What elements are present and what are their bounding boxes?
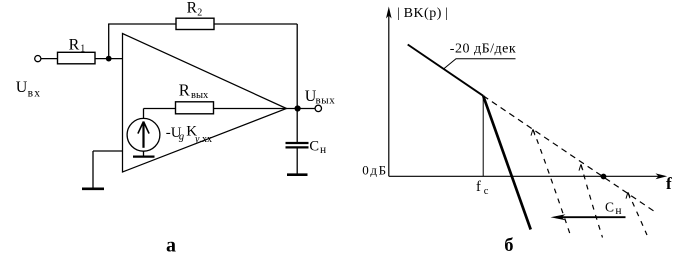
label U_вых [305, 88, 336, 107]
arrowhead pole curve 1 [531, 129, 535, 135]
curve: -20 dB/dec segment [408, 45, 484, 96]
svg-text:у.хх: у.хх [194, 134, 212, 145]
wire: input terminal to R1 [41, 58, 58, 60]
leader line for -20 дБ/дек [444, 59, 516, 69]
svg-text:R: R [69, 36, 80, 53]
C_н arrow [551, 214, 626, 220]
wire: dependent source top stub [143, 109, 145, 119]
dashed pole curve 1 [533, 130, 571, 236]
controlled source -U_д K_у.хх [127, 118, 160, 151]
resistor Rвых [176, 81, 214, 114]
ground (non-inverting input) [82, 188, 104, 191]
x-axis f [389, 173, 667, 179]
wire: R1 to op-amp inverting input [95, 58, 123, 60]
svg-text:f: f [666, 174, 672, 193]
f_c drop line [482, 96, 484, 177]
output node dot [295, 105, 301, 111]
svg-text:C: C [309, 139, 319, 155]
svg-text:0дБ: 0дБ [362, 163, 387, 178]
svg-text:R: R [179, 81, 190, 100]
svg-text:-20 дБ/дек: -20 дБ/дек [450, 42, 516, 57]
svg-text:U: U [16, 79, 28, 96]
y-axis |BK(p)| [386, 7, 392, 177]
curve: steep bold segment after f_c [483, 96, 531, 230]
op-amp U1 triangle [123, 34, 287, 173]
wire: R2 to output vertical [214, 23, 297, 25]
label f_c [476, 179, 489, 197]
dashed pole curve 3 [628, 193, 647, 236]
svg-text:н: н [615, 205, 621, 217]
node A junction dot [106, 56, 112, 62]
label C_н [605, 199, 622, 216]
wire: feedback vertical from node A up [108, 24, 110, 59]
svg-text:1: 1 [80, 44, 85, 55]
resistor R2 [176, 0, 214, 30]
capacitor C_н [286, 139, 327, 156]
svg-text:вых: вых [191, 90, 209, 101]
svg-text:б: б [504, 236, 513, 255]
wire: Rвых to op-amp output apex [214, 108, 287, 110]
value label -Uд Kу.хх [166, 124, 212, 146]
input terminal (U_вх port) [35, 56, 41, 62]
svg-text:| BK(p) |: | BK(p) | [397, 6, 448, 21]
wire: source bottom stub [143, 151, 145, 156]
svg-text:f: f [476, 179, 481, 195]
svg-text:2: 2 [197, 7, 202, 18]
svg-text:вх: вх [28, 87, 42, 99]
svg-text:вых: вых [316, 95, 336, 107]
wire: right vertical from top wire down through output node to capacitor [296, 24, 298, 143]
wire: non-inverting input down to ground [92, 151, 94, 188]
svg-text:а: а [166, 235, 176, 255]
resistor R1 [58, 36, 96, 63]
wire: non-inverting input [93, 150, 123, 152]
wire: top feedback to R2 [108, 23, 176, 25]
ground bar (source common) [133, 156, 155, 158]
ground (capacitor) [287, 173, 308, 176]
wire: source top to Rвых [144, 108, 176, 110]
arrowhead pole curve 2 [579, 164, 583, 170]
wire: capacitor to ground [296, 149, 298, 174]
dashed -20 dB/dec extension [483, 96, 656, 213]
dot on 0дБ crossing [601, 174, 607, 180]
dashed pole curve 2 [581, 165, 603, 238]
svg-text:g: g [179, 131, 184, 142]
output terminal (U_вых port) [315, 105, 321, 111]
svg-text:C: C [605, 199, 614, 214]
label U_вх [16, 79, 41, 99]
wire: apex to output terminal [287, 108, 316, 110]
svg-text:R: R [187, 0, 198, 16]
arrowhead pole curve 3 [626, 192, 630, 198]
svg-text:c: c [484, 186, 489, 197]
svg-text:н: н [320, 144, 326, 156]
